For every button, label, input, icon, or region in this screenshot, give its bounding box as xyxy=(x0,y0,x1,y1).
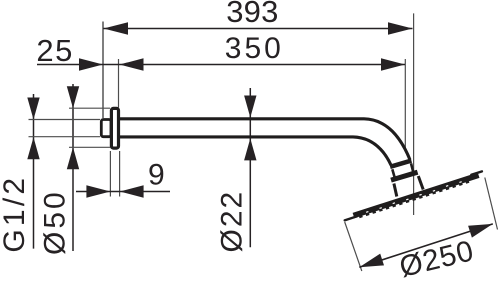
arrow Ø22 bottom (points up) xyxy=(244,138,256,160)
extension line left of 393 (wall face) xyxy=(102,22,104,119)
extension line connector top (G1/2) xyxy=(29,119,101,121)
extension line flange left edge (for 9) xyxy=(109,151,111,197)
dimension line 9 xyxy=(76,191,170,193)
svg-text:9: 9 xyxy=(148,158,165,191)
wall flange escutcheon xyxy=(111,108,118,148)
extension line connector bottom (G1/2) xyxy=(29,136,101,138)
joint neck left side xyxy=(392,169,395,178)
joint lower nut bar B xyxy=(391,172,418,180)
extension line right of 393 xyxy=(413,13,415,215)
wall connector G1/2 nipple xyxy=(101,120,111,137)
head right blade tip xyxy=(470,170,484,176)
arrow G1/2 top (points down) xyxy=(27,98,39,120)
arrow Ø22 top (points down) xyxy=(244,96,256,118)
extension line right of 350 xyxy=(404,59,406,151)
svg-text:Ø22: Ø22 xyxy=(216,190,249,253)
arm tube outer bottom line with bend xyxy=(119,137,391,165)
dimension line 350 / 25 shared xyxy=(37,64,405,66)
arrow 350 right xyxy=(381,58,405,70)
G1/2 leader line with arrows xyxy=(33,94,35,249)
cone left side xyxy=(394,184,397,197)
svg-text:G1/2: G1/2 xyxy=(0,175,31,253)
arrow 393 left xyxy=(104,22,129,34)
extension line left of 350 (flange face) xyxy=(118,59,120,108)
joint neck right side xyxy=(411,163,414,173)
arrow 25 (points right at wall face) xyxy=(79,58,103,70)
shower head disc (rotated group) xyxy=(342,170,485,223)
svg-text:Ø50: Ø50 xyxy=(38,189,71,255)
extension line flange bottom (Ø50) xyxy=(69,146,110,148)
arrow Ø250 right (points up-right) xyxy=(468,224,493,238)
joint upper nut bar A xyxy=(390,161,411,167)
extension line flange right edge (for 9) xyxy=(119,151,121,197)
arrow G1/2 bottom (points up) xyxy=(27,137,39,159)
dimension line Ø250 xyxy=(359,224,493,267)
arrow 350 left (points left at flange face) xyxy=(120,58,144,70)
head main band xyxy=(353,172,480,218)
svg-text:25: 25 xyxy=(36,33,74,68)
nozzle ticks xyxy=(359,181,469,219)
dimension line 393 xyxy=(104,28,413,30)
extension line flange top (Ø50) xyxy=(69,107,110,109)
cone right side xyxy=(418,176,423,190)
arrow 9 left (points right) xyxy=(86,185,110,197)
Ø250 extension line left xyxy=(345,222,362,271)
arrow 393 right xyxy=(388,22,413,34)
nozzle speckles (white) xyxy=(366,181,462,214)
Ø22 leader line with arrows xyxy=(249,88,251,247)
arrow Ø50 bottom (points up) xyxy=(67,147,79,169)
head left blade tip xyxy=(343,215,358,222)
arrow Ø250 left (points down-left) xyxy=(359,254,384,268)
arm tube outer top line with bend xyxy=(119,119,410,160)
arrow 9 right (points left) xyxy=(120,185,144,197)
Ø50 leader line with arrows xyxy=(72,84,74,251)
svg-text:350: 350 xyxy=(225,32,284,65)
Ø250 extension line right xyxy=(485,178,498,230)
svg-text:393: 393 xyxy=(226,0,278,29)
arrow Ø50 top (points down) xyxy=(67,86,79,108)
